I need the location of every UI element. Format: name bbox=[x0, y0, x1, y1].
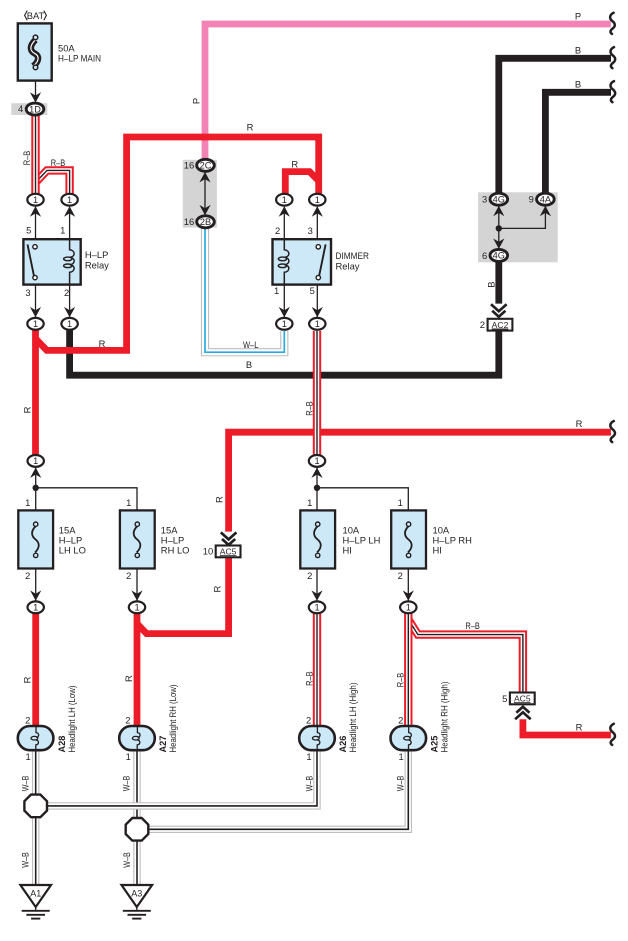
svg-text:1: 1 bbox=[398, 751, 403, 762]
svg-text:1D: 1D bbox=[29, 104, 41, 114]
svg-text:Relay: Relay bbox=[336, 260, 360, 271]
svg-text:1: 1 bbox=[25, 497, 30, 508]
svg-text:1: 1 bbox=[33, 456, 38, 466]
svg-text:R: R bbox=[99, 338, 106, 349]
svg-text:Headlight LH (High): Headlight LH (High) bbox=[348, 683, 358, 753]
svg-text:Headlight RH (Low): Headlight RH (Low) bbox=[168, 685, 178, 753]
svg-text:R: R bbox=[123, 675, 134, 682]
svg-text:RH LO: RH LO bbox=[161, 545, 190, 556]
svg-text:2: 2 bbox=[275, 225, 280, 236]
svg-text:B: B bbox=[575, 45, 581, 56]
svg-text:AC5: AC5 bbox=[220, 547, 237, 557]
svg-text:A3: A3 bbox=[131, 889, 142, 899]
svg-text:2: 2 bbox=[25, 715, 30, 726]
svg-text:A25: A25 bbox=[430, 736, 440, 753]
svg-text:1: 1 bbox=[314, 456, 319, 466]
svg-text:B: B bbox=[246, 359, 252, 370]
svg-text:2: 2 bbox=[125, 715, 130, 726]
svg-text:HI: HI bbox=[433, 545, 442, 556]
svg-text:5: 5 bbox=[26, 224, 31, 235]
svg-text:3: 3 bbox=[308, 225, 313, 236]
svg-text:4A: 4A bbox=[540, 195, 552, 205]
svg-text:W–B: W–B bbox=[303, 776, 314, 792]
svg-text:R: R bbox=[22, 676, 33, 683]
svg-text:R: R bbox=[247, 122, 254, 133]
svg-text:Headlight RH (High): Headlight RH (High) bbox=[440, 682, 450, 753]
svg-text:A27: A27 bbox=[158, 736, 168, 753]
svg-text:1: 1 bbox=[67, 195, 72, 205]
svg-text:1: 1 bbox=[67, 319, 72, 329]
svg-text:1: 1 bbox=[398, 497, 403, 508]
svg-text:A28: A28 bbox=[57, 736, 67, 753]
svg-text:H–LP: H–LP bbox=[85, 249, 108, 260]
svg-text:W–L: W–L bbox=[243, 339, 259, 350]
svg-text:A26: A26 bbox=[338, 736, 348, 753]
svg-text:3: 3 bbox=[482, 194, 487, 205]
svg-text:1: 1 bbox=[406, 603, 411, 613]
svg-text:W–B: W–B bbox=[121, 852, 132, 868]
svg-text:5: 5 bbox=[310, 285, 315, 296]
svg-text:W–B: W–B bbox=[20, 852, 31, 868]
svg-text:2: 2 bbox=[126, 570, 131, 581]
svg-text:4G: 4G bbox=[493, 251, 505, 261]
svg-text:R: R bbox=[214, 496, 225, 503]
svg-text:P: P bbox=[190, 98, 201, 104]
svg-text:1: 1 bbox=[315, 195, 320, 205]
svg-text:R–B: R–B bbox=[465, 620, 480, 631]
svg-text:2C: 2C bbox=[200, 161, 212, 171]
svg-text:1: 1 bbox=[282, 319, 287, 329]
svg-text:R: R bbox=[211, 585, 222, 592]
svg-text:9: 9 bbox=[529, 194, 534, 205]
svg-text:W–B: W–B bbox=[121, 776, 132, 792]
svg-text:1: 1 bbox=[306, 751, 311, 762]
svg-text:1: 1 bbox=[282, 195, 287, 205]
svg-text:1: 1 bbox=[315, 319, 320, 329]
svg-text:R: R bbox=[576, 721, 583, 732]
svg-text:2: 2 bbox=[306, 715, 311, 726]
svg-text:R–B: R–B bbox=[304, 401, 315, 416]
svg-text:2: 2 bbox=[307, 570, 312, 581]
svg-text:HI: HI bbox=[343, 545, 352, 556]
svg-text:4G: 4G bbox=[493, 195, 505, 205]
svg-text:R–B: R–B bbox=[21, 151, 32, 166]
svg-text:AC5: AC5 bbox=[514, 694, 531, 704]
svg-text:1: 1 bbox=[60, 224, 65, 235]
svg-text:Relay: Relay bbox=[85, 259, 109, 270]
svg-text:16: 16 bbox=[184, 160, 194, 171]
svg-text:W–B: W–B bbox=[395, 776, 406, 792]
svg-text:Headlight LH (Low): Headlight LH (Low) bbox=[67, 686, 77, 753]
svg-text:10: 10 bbox=[203, 546, 213, 557]
svg-text:R: R bbox=[21, 406, 32, 413]
svg-text:R–B: R–B bbox=[51, 157, 66, 168]
svg-text:1: 1 bbox=[314, 603, 319, 613]
svg-text:1: 1 bbox=[274, 285, 279, 296]
svg-text:P: P bbox=[575, 10, 581, 21]
svg-text:B: B bbox=[575, 79, 581, 90]
svg-text:1: 1 bbox=[126, 497, 131, 508]
svg-text:1: 1 bbox=[25, 751, 30, 762]
svg-text:1: 1 bbox=[307, 497, 312, 508]
svg-text:3: 3 bbox=[25, 287, 30, 298]
svg-text:AC2: AC2 bbox=[492, 320, 509, 330]
svg-text:1: 1 bbox=[134, 603, 139, 613]
svg-text:16: 16 bbox=[184, 216, 194, 227]
svg-text:2: 2 bbox=[398, 715, 403, 726]
svg-text:R–B: R–B bbox=[303, 671, 314, 686]
svg-text:BAT: BAT bbox=[27, 10, 45, 21]
svg-text:2: 2 bbox=[480, 319, 485, 330]
svg-text:R: R bbox=[576, 418, 583, 429]
svg-text:2: 2 bbox=[25, 570, 30, 581]
svg-text:1: 1 bbox=[33, 603, 38, 613]
svg-text:A1: A1 bbox=[30, 889, 41, 899]
svg-text:W–B: W–B bbox=[19, 776, 30, 792]
svg-text:1: 1 bbox=[33, 319, 38, 329]
svg-text:LH LO: LH LO bbox=[59, 545, 86, 556]
svg-text:1: 1 bbox=[126, 751, 131, 762]
svg-text:2B: 2B bbox=[200, 217, 211, 227]
svg-text:R: R bbox=[291, 158, 298, 169]
svg-text:H–LP MAIN: H–LP MAIN bbox=[58, 52, 101, 63]
svg-text:6: 6 bbox=[482, 250, 487, 261]
svg-text:R–B: R–B bbox=[394, 673, 405, 688]
svg-text:2: 2 bbox=[398, 570, 403, 581]
svg-text:4: 4 bbox=[18, 103, 23, 114]
svg-text:B: B bbox=[485, 281, 496, 287]
svg-text:1: 1 bbox=[33, 195, 38, 205]
svg-text:2: 2 bbox=[64, 287, 69, 298]
svg-text:DIMMER: DIMMER bbox=[336, 250, 370, 261]
svg-text:5: 5 bbox=[502, 693, 507, 704]
